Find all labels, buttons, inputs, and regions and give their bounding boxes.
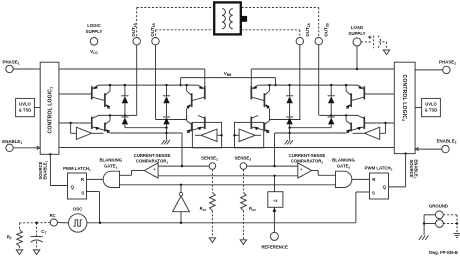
node OUT2B line	[319, 45, 358, 117]
wire source enable 2	[389, 152, 407, 186]
block UVLO TSD 2	[415, 98, 440, 116]
pin ENABLE1	[2, 139, 40, 152]
ground arrow (CT)	[33, 250, 39, 255]
ground (bridge2)	[285, 128, 293, 145]
svg-text:CONTROL LOGIC1: CONTROL LOGIC1	[48, 87, 54, 134]
diode pair D1 D2 (bridge1 left column)	[121, 84, 128, 128]
pin REFERENCE	[261, 207, 288, 249]
transistor pair Q8 (bridge2 lower-right)	[346, 115, 364, 133]
ground arrow (RS1)	[209, 238, 215, 243]
junction Q5 collector rail	[268, 84, 270, 86]
dashed wire OUT2A to motor	[242, 30, 300, 37]
block control logic 1	[40, 62, 59, 154]
gate blanking gate 2	[332, 157, 355, 187]
wire bridge1 top rail	[99, 84, 198, 86]
wire load supply to VBB rail	[356, 46, 358, 69]
wire base Q7	[364, 93, 394, 95]
block UVLO TSD 1	[16, 98, 41, 116]
drawing number	[429, 250, 458, 255]
svg-text:CURRENT-SENSE: CURRENT-SENSE	[289, 153, 326, 158]
label source enable 1	[38, 160, 49, 179]
ground (pins)	[419, 235, 429, 239]
resistor RS1	[200, 169, 216, 237]
wire bridge1 diode return	[125, 127, 168, 129]
svg-text:Dwg. FP-035-B: Dwg. FP-035-B	[429, 250, 458, 255]
junction load supply	[356, 68, 358, 70]
wire latch1 R to gate1	[87, 178, 104, 180]
resistor RT	[7, 230, 23, 250]
wire comp2 output to gate2	[312, 171, 336, 176]
wire base drive upper-left Q bridge2	[250, 69, 252, 94]
wire sync line	[59, 147, 394, 149]
diode pair D3 D4 (bridge1 right column)	[163, 84, 170, 128]
svg-text:BLANKING: BLANKING	[99, 157, 122, 162]
svg-text:CONTROL LOGIC2: CONTROL LOGIC2	[401, 75, 407, 122]
pin OUT2A	[296, 23, 311, 45]
svg-text:CURRENT-SENSE: CURRENT-SENSE	[134, 153, 171, 158]
svg-text:UVLO: UVLO	[425, 102, 437, 107]
node OUT1B line	[156, 45, 187, 121]
wire sense1 net	[158, 165, 209, 167]
earth ground symbol	[453, 234, 460, 238]
transistor pair Q7 (bridge2 upper-right)	[346, 85, 364, 109]
pin OUT1B	[150, 23, 159, 45]
svg-text:OSC: OSC	[73, 207, 82, 212]
wire Q3 emitter to OUT1B node	[186, 109, 188, 120]
wire base Q8	[364, 122, 394, 134]
buffer A3 box (bridge2 lower-left)	[233, 122, 263, 147]
wire source enable 1	[49, 153, 67, 185]
svg-text:UVLO: UVLO	[19, 102, 31, 107]
transistor pair Q5 (bridge2 upper-left)	[251, 85, 269, 109]
diode pair D5 D6 (bridge2 left column)	[286, 84, 293, 128]
transistor pair Q3 (bridge1 upper-right)	[186, 85, 204, 109]
buffer A2 box (bridge1 lower-right)	[192, 122, 222, 147]
svg-text:GROUND: GROUND	[429, 203, 448, 208]
svg-text:S: S	[372, 191, 375, 196]
pin load supply	[348, 25, 365, 46]
svg-text:& TSD: & TSD	[19, 108, 32, 113]
wire blanking rail	[120, 184, 336, 186]
pin GROUND	[423, 203, 448, 235]
transistor pair Q1 (bridge1 upper-left)	[92, 85, 110, 109]
svg-text:S: S	[81, 191, 84, 196]
dashed wire OUT2B to motor	[242, 8, 319, 38]
pin OUT1A	[131, 23, 140, 45]
wire bridge2 top rail	[258, 84, 357, 86]
node OUT2A line	[270, 45, 301, 121]
ground arrow (RS2)	[240, 240, 246, 245]
wire bridge2 sink line	[275, 132, 347, 166]
transistor pair Q2 (bridge1 lower-left)	[92, 115, 110, 133]
wire bridge2 diode return	[288, 127, 331, 129]
svg-text:÷4: ÷4	[273, 198, 278, 203]
wire comp1 output to gate1	[120, 171, 145, 176]
latch PWM latch 2	[365, 166, 393, 199]
pin SENSE2	[234, 156, 251, 170]
pin OUT2B	[315, 23, 330, 45]
junction VBB to bridge1 rail	[179, 84, 181, 86]
comparator current-sense comparator 2	[289, 153, 326, 178]
diode pair D7 D8 (bridge2 right column)	[328, 84, 335, 128]
svg-text:RC: RC	[50, 213, 56, 218]
node VBB	[181, 71, 276, 85]
resistor RS2	[241, 169, 256, 239]
ground arrow (load supply cap)	[383, 50, 389, 55]
svg-text:LOGIC: LOGIC	[87, 23, 101, 28]
ground arrow (RT)	[16, 250, 22, 255]
motor winding L2	[229, 9, 232, 29]
svg-text:SOURCE: SOURCE	[409, 160, 414, 178]
wire Q5 emitter to OUT2A node	[269, 109, 271, 120]
motor winding L1	[222, 9, 225, 29]
wire base drive upper-right Q	[204, 69, 206, 94]
pin PHASE2	[415, 59, 456, 73]
pin PHASE1	[3, 59, 41, 72]
wire bridge1 sink line	[110, 132, 182, 166]
comparator current-sense comparator 1	[134, 153, 171, 178]
svg-text:BLANKING: BLANKING	[332, 157, 355, 162]
wire reference rail	[158, 175, 298, 177]
pin ENABLE2	[415, 139, 456, 153]
capacitor CT	[31, 223, 47, 250]
node OUT1A line	[99, 45, 137, 117]
svg-text:& TSD: & TSD	[425, 108, 438, 113]
svg-text:Q: Q	[71, 184, 75, 189]
transistor pair Q6 (bridge2 lower-left)	[251, 115, 269, 133]
wire VBB rail right segment	[251, 68, 394, 70]
wire gate2 to latch2 R	[352, 178, 370, 180]
wire base Q1	[59, 93, 92, 95]
wire latch2 S to osc rail	[356, 192, 370, 223]
block control logic 2	[394, 62, 415, 153]
pin SENSE1	[201, 156, 218, 170]
capacitor C1 (dashed)	[361, 36, 387, 50]
wire sense2 net	[247, 165, 298, 167]
junction Q1 collector rail	[109, 84, 111, 86]
svg-text:LOAD: LOAD	[351, 25, 363, 30]
pin RC	[50, 213, 69, 226]
buffer A4 (bridge2 lower-right)	[353, 127, 380, 139]
junction VBB to bridge2 rail	[274, 84, 276, 86]
label source enable 2	[409, 160, 419, 179]
wire ground dashed	[443, 215, 458, 234]
dashed wire OUT1B to motor	[156, 30, 215, 37]
svg-text:Q: Q	[383, 184, 387, 189]
wire base Q2	[59, 122, 92, 134]
junction Q3 collector rail	[185, 84, 187, 86]
transistor pair Q4 (bridge1 lower-right)	[186, 115, 204, 133]
divider block /4	[268, 176, 283, 208]
oscillator OSC	[69, 207, 87, 233]
wire oscillator rail	[87, 222, 356, 224]
inverter A5 (oscillator blanking)	[173, 185, 190, 223]
wire VBB rail left segment	[59, 68, 205, 70]
svg-text:REFERENCE: REFERENCE	[261, 244, 288, 249]
gate blanking gate 1	[99, 157, 122, 187]
buffer A1 (bridge1 lower-left)	[76, 127, 103, 139]
junction Q7 collector rail	[345, 84, 347, 86]
svg-text:SUPPLY: SUPPLY	[348, 31, 365, 36]
pin VCC logic supply	[86, 23, 103, 55]
dashed wire OUT1A to motor	[137, 8, 215, 38]
stepper motor M1	[214, 2, 247, 34]
latch PWM latch 1	[63, 166, 91, 199]
svg-text:SUPPLY: SUPPLY	[86, 29, 103, 34]
wire latch1 S to osc rail	[87, 192, 100, 223]
wire RC to RT CT (dashed)	[20, 222, 51, 230]
ground (bridge1)	[162, 128, 170, 145]
